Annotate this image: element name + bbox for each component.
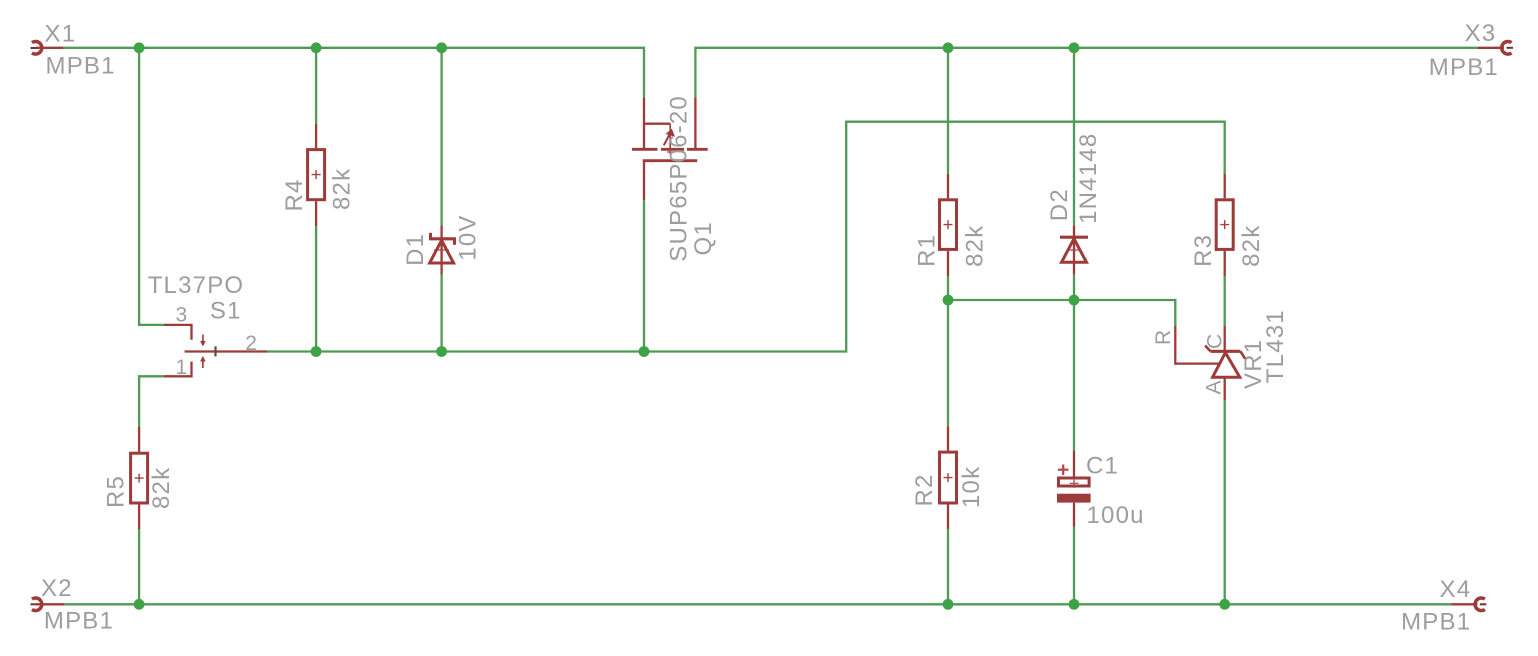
svg-text:MPB1: MPB1 — [1401, 609, 1471, 636]
svg-text:C: C — [1204, 333, 1227, 349]
wire S1 pin1 to R5 — [139, 376, 164, 427]
svg-text:MPB1: MPB1 — [1429, 54, 1499, 81]
svg-text:100u: 100u — [1087, 502, 1145, 529]
svg-text:C1: C1 — [1086, 452, 1119, 479]
svg-text:MPB1: MPB1 — [44, 608, 114, 635]
wire ref node to VR1 R — [948, 300, 1175, 326]
svg-text:82k: 82k — [1238, 225, 1265, 267]
zener diode D1 — [429, 225, 456, 274]
svg-text:R: R — [1152, 329, 1175, 345]
wire bottom rail — [64, 603, 1451, 605]
resistor R1 — [940, 174, 957, 276]
resistor R2 — [940, 426, 957, 529]
svg-text:82k: 82k — [148, 467, 175, 509]
svg-text:X3: X3 — [1465, 20, 1497, 47]
svg-text:R3: R3 — [1190, 234, 1217, 267]
connector X2 — [31, 598, 65, 611]
wire R3 to VR1 cathode — [1224, 276, 1226, 326]
svg-text:R5: R5 — [103, 475, 130, 508]
svg-text:D2: D2 — [1046, 188, 1073, 221]
svg-text:A: A — [1203, 379, 1226, 394]
wire R4 bottom — [315, 226, 317, 352]
svg-text:X4: X4 — [1440, 576, 1472, 603]
svg-text:X1: X1 — [45, 20, 77, 47]
resistor R5 — [131, 427, 148, 529]
svg-text:82k: 82k — [329, 168, 356, 210]
wire D1 top — [440, 48, 442, 226]
svg-text:1N4148: 1N4148 — [1075, 133, 1102, 224]
svg-text:R4: R4 — [281, 178, 308, 211]
wire D2 top — [1073, 48, 1075, 226]
wire C1 to bottom rail — [1073, 527, 1075, 605]
connector X4 — [1451, 598, 1486, 611]
svg-text:D1: D1 — [402, 233, 429, 266]
svg-text:3: 3 — [176, 304, 189, 327]
wire branch to S1 pin3 — [139, 48, 164, 325]
diode D2 — [1060, 225, 1088, 274]
wire R4 top — [315, 48, 317, 124]
switch S1 — [164, 325, 267, 376]
svg-text:1: 1 — [176, 356, 189, 379]
svg-text:Q1: Q1 — [690, 221, 717, 255]
svg-text:R2: R2 — [911, 473, 938, 506]
wire VR1 anode to bottom rail — [1224, 400, 1226, 604]
transistor Q1 p-mosfet — [632, 98, 708, 201]
connector X1 — [31, 42, 64, 55]
wire R2 to bottom rail — [947, 529, 949, 604]
svg-text:X2: X2 — [41, 575, 73, 602]
resistor R3 — [1216, 174, 1233, 276]
svg-text:2: 2 — [245, 332, 258, 355]
svg-text:82k: 82k — [961, 225, 988, 267]
wire mid rail to feedback — [267, 122, 1225, 352]
wire D2 to C1 — [1073, 274, 1075, 450]
svg-text:S1: S1 — [210, 298, 242, 325]
svg-text:R1: R1 — [913, 234, 940, 267]
svg-text:TL431: TL431 — [1262, 309, 1289, 383]
wire D1 bottom — [440, 274, 442, 351]
wire R5 to bottom rail — [138, 529, 140, 604]
svg-text:SUP65P06-20: SUP65P06-20 — [666, 95, 693, 262]
svg-text:MPB1: MPB1 — [46, 53, 116, 80]
wire R1 to R2 — [947, 276, 949, 426]
wire Q1 gate — [643, 200, 645, 351]
svg-text:TL37PO: TL37PO — [148, 272, 245, 299]
connector X3 — [1478, 41, 1513, 54]
wire top rail left — [63, 48, 644, 98]
voltage reference VR1 TL431 — [1175, 326, 1245, 400]
wire R1 top — [947, 48, 949, 174]
svg-text:10V: 10V — [454, 214, 481, 260]
wire top rail right — [695, 48, 1477, 98]
capacitor C1 — [1057, 451, 1091, 527]
svg-text:10k: 10k — [958, 466, 985, 508]
resistor R4 — [308, 124, 325, 226]
